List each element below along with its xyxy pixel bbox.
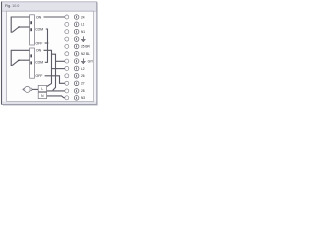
svg-text:OFF: OFF: [36, 41, 43, 45]
terminal row earth 1: [65, 36, 86, 41]
timer box U1: [30, 15, 35, 45]
wire S1 com to box: [19, 26, 30, 28]
switch S2 blade: [12, 60, 19, 65]
wire to terminal L2: [52, 68, 67, 70]
terminal row 27: [65, 81, 85, 86]
svg-text:COM: COM: [35, 27, 43, 31]
svg-text:G/Y: G/Y: [88, 59, 94, 63]
switch S1 pivot dot: [18, 26, 19, 27]
switch S1 blade and wires: [11, 17, 29, 32]
terminal row N3: [65, 96, 86, 101]
svg-text:N3: N3: [81, 96, 85, 100]
timer box U2: [30, 48, 35, 78]
terminal row L2: [65, 66, 85, 71]
wire S1 top: [11, 17, 29, 32]
svg-text:26: 26: [81, 74, 85, 78]
outer figure frame: [0, 0, 100, 107]
terminal row earth G/Y: [65, 58, 94, 63]
wire S2 top: [11, 50, 29, 65]
svg-text:N1: N1: [81, 30, 85, 34]
mains plug P1: [24, 86, 30, 92]
svg-text:ON: ON: [36, 15, 42, 19]
svg-text:28: 28: [81, 89, 85, 93]
wire S2 com to box: [19, 59, 30, 61]
terminal row 25 BR: [65, 44, 91, 49]
terminal row N1: [65, 29, 86, 34]
svg-text:L2: L2: [81, 67, 85, 71]
svg-text:OFF: OFF: [36, 74, 43, 78]
wire OFF1 stub: [45, 42, 49, 44]
svg-text:ON: ON: [36, 49, 42, 53]
terminal row 28: [65, 89, 85, 94]
terminal row N2 BL: [65, 51, 90, 56]
switch S2 pivot dot: [18, 60, 19, 61]
wire mains to terminal 28: [45, 90, 66, 92]
wire ON2 down to mains L: [44, 50, 52, 86]
svg-text:25 BR: 25 BR: [81, 45, 91, 49]
terminal row 24: [65, 15, 85, 20]
ground symbol: [81, 36, 86, 41]
terminal strip rows: [65, 15, 94, 100]
wire OFF2 to terminal 27: [45, 76, 67, 84]
wire plug to mains box: [30, 88, 38, 90]
wire branch to vertical V3: [52, 54, 56, 90]
svg-text:COM: COM: [35, 60, 43, 64]
switch S2 blade and wires: [11, 50, 29, 65]
wire plug stub: [23, 88, 25, 90]
wire ON1 to terminal 24: [44, 16, 67, 18]
svg-text:27: 27: [81, 82, 85, 86]
wire mains N to terminal N3: [47, 96, 67, 98]
svg-text:24: 24: [81, 15, 85, 19]
svg-text:N2 BL: N2 BL: [81, 52, 90, 56]
connecting wires: [23, 17, 67, 98]
terminal row L1: [65, 22, 85, 27]
ground symbol: [81, 58, 86, 63]
svg-text:L1: L1: [81, 23, 85, 27]
terminal row 26: [65, 74, 85, 79]
svg-text:Fig. 10.0: Fig. 10.0: [5, 4, 19, 8]
mains terminal box L/N: [38, 85, 46, 91]
switch S1 blade: [12, 27, 19, 32]
inner white panel: [7, 11, 94, 101]
wire to earth G/Y terminal: [56, 60, 67, 62]
wire COM1 bus down to COM2: [45, 29, 48, 62]
svg-text:L: L: [41, 87, 43, 91]
